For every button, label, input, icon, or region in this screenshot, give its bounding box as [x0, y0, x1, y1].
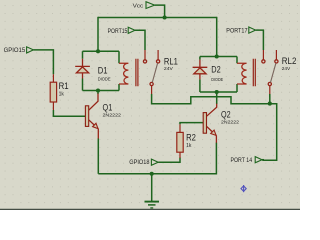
transistor Q1 2N2222 — [85, 94, 121, 140]
relay RL2 contact — [262, 50, 297, 97]
svg-text:DIODE: DIODE — [98, 76, 111, 81]
wire GPIO18 to R2 — [158, 158, 180, 163]
terminal PORT17 — [226, 27, 255, 34]
svg-text:RL1: RL1 — [164, 56, 178, 66]
svg-text:GPIO18: GPIO18 — [129, 160, 150, 166]
diode D1 — [75, 59, 110, 82]
wire D1 snubber loop — [83, 51, 120, 90]
wire PORT15 to RL1 contact — [135, 30, 145, 50]
junction RL2 common — [268, 102, 272, 106]
wire emitter ground rail — [98, 173, 216, 175]
wire Q2 collector link — [216, 92, 218, 104]
svg-text:R2: R2 — [186, 132, 196, 142]
junction ground rail — [150, 172, 154, 176]
junction D1 loop top — [96, 49, 100, 53]
wire R1 to Q1 base — [53, 110, 85, 116]
wire GPIO15 to R1 — [33, 50, 53, 74]
junction D2 loop top — [215, 54, 219, 58]
svg-text:24V: 24V — [282, 66, 291, 71]
wire PORT17 to RL2 contact — [256, 30, 264, 50]
wire D2 snubber loop — [200, 57, 237, 93]
resistor R1 — [50, 74, 68, 110]
terminal PORT 14 — [231, 157, 263, 165]
wire Q2 emitter down — [215, 143, 217, 175]
relay RL2 coil — [237, 59, 255, 86]
svg-text:GPIO15: GPIO15 — [4, 48, 26, 54]
svg-text:1k: 1k — [186, 143, 192, 149]
svg-text:Q1: Q1 — [103, 102, 113, 112]
wire top bus — [98, 17, 217, 19]
terminal GPIO18 — [129, 159, 158, 166]
svg-text:D2: D2 — [211, 65, 220, 75]
wire PORT14 lead — [262, 159, 264, 161]
resistor R2 — [177, 124, 196, 158]
ground — [145, 174, 160, 208]
transistor Q2 2N2222 — [203, 104, 239, 144]
svg-text:PORT17: PORT17 — [226, 28, 248, 34]
junction Vcc-bus — [163, 15, 167, 19]
wire R2 to Q2 base — [180, 123, 203, 125]
svg-text:Q2: Q2 — [221, 109, 231, 119]
svg-text:R1: R1 — [59, 81, 69, 91]
svg-text:PORT 14: PORT 14 — [231, 158, 253, 164]
diode D2 — [193, 60, 224, 82]
junction D1 loop bottom — [96, 88, 100, 92]
svg-text:2N2222: 2N2222 — [221, 120, 239, 125]
svg-text:2N2222: 2N2222 — [103, 113, 122, 118]
no-ERC marker (blue diamond) — [241, 185, 246, 192]
junction D2 loop bottom — [215, 90, 219, 94]
svg-text:24V: 24V — [164, 66, 174, 71]
svg-text:RL2: RL2 — [282, 56, 297, 66]
terminal GPIO15 — [4, 47, 34, 54]
terminal PORT15 — [108, 27, 135, 35]
svg-text:1k: 1k — [59, 92, 65, 98]
svg-text:DIODE: DIODE — [211, 77, 223, 82]
relay RL1 contact — [143, 50, 178, 94]
wire RL2 common drop — [269, 94, 271, 104]
power terminal Vcc — [133, 2, 155, 10]
wire bus left drop to D1 loop — [97, 17, 99, 52]
svg-text:Vcc: Vcc — [133, 4, 144, 10]
wire bus right drop to D2 loop — [216, 17, 218, 57]
wire Q1 emitter down — [97, 139, 99, 174]
bottom sheet edge — [0, 208, 300, 210]
wire Q1 collector link — [97, 91, 99, 95]
relay RL1 coil — [119, 59, 138, 86]
svg-text:PORT15: PORT15 — [108, 29, 128, 35]
wire Vcc lead — [155, 5, 165, 17]
svg-text:D1: D1 — [98, 66, 108, 76]
wire RL1 common to PORT14 (stepped) — [152, 94, 277, 160]
